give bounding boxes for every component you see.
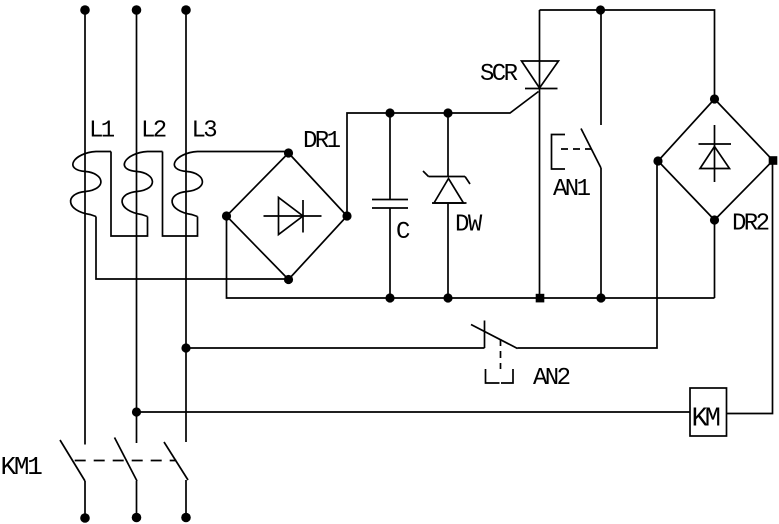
inductor L1 [71,118,115,217]
node KM1 contact3 bottom [181,513,191,523]
svg-text:KM: KM [692,405,720,435]
svg-text:AN2: AN2 [533,365,570,392]
zener diode DW [423,113,483,298]
contactor KM1 contact 3 [164,442,188,518]
bridge rectifier DR2 [658,99,773,238]
svg-text:AN1: AN1 [553,176,591,203]
KM1 linkage dashed [75,460,177,462]
node AN2 branch junction on L3 [181,343,190,352]
node SCR cathode on DC- bus (square) [536,294,545,303]
node C top [385,108,394,117]
svg-text:KM1: KM1 [1,452,43,482]
pushbutton AN1 [552,10,602,298]
wire SCR gate from DR1 right node [347,92,539,217]
wire DR2 bottom to DC- bus [714,220,716,298]
wire DR1 left node down and DC- bus [227,216,715,298]
node DR2 top [710,94,719,103]
pushbutton AN2 (NC) [471,321,570,393]
inductor L2 [122,118,166,217]
node C bottom [385,293,394,302]
wire AN2 to DR2 left node [518,161,658,348]
inductor L3 [172,118,216,217]
wire L1 phase vertical [84,10,86,445]
svg-text:L2: L2 [141,118,166,145]
node L2 top terminal [132,5,142,15]
label KM1 [1,452,43,482]
node AN1 bottom on DC- bus [596,293,605,302]
capacitor C [372,113,410,298]
wire AN2 branch from L3 [186,347,485,349]
node top bus junction [596,5,605,14]
node DR2 right (square) [769,156,778,165]
node DW bottom [443,293,452,302]
svg-text:SCR: SCR [480,61,518,88]
node L3 top terminal [181,5,191,15]
wire coil3 top to DR1 top node [212,152,289,154]
svg-text:DR2: DR2 [732,211,769,238]
node bottom bus junction on L2 [132,407,141,416]
node DR1 right [342,211,351,220]
bridge rectifier DR1 [227,128,348,280]
node DR2 bottom [710,215,719,224]
node L1 top terminal [80,5,90,15]
node DW top [443,108,452,117]
wire L1 coil bottom lead to DR1 bottom [96,217,289,280]
node KM1 contact1 bottom [80,513,90,523]
thyristor SCR [480,10,559,298]
svg-text:DW: DW [455,212,483,239]
wire L2 phase vertical [136,10,138,443]
node KM1 contact2 bottom [132,513,142,523]
wire bottom bus from L2 to KM coil [137,411,691,413]
node DR1 bottom [284,275,293,284]
relay coil KM [690,388,727,436]
wire U-jumper coil1 top to coil2 bottom [111,152,148,237]
contactor KM1 contact 1 [60,440,85,518]
svg-text:L3: L3 [192,118,217,145]
svg-text:DR1: DR1 [303,128,341,155]
svg-text:L1: L1 [89,118,115,145]
node DR1 top [284,148,293,157]
wire L3 phase vertical [185,10,187,442]
wire U-jumper coil2 top to coil3 bottom [163,152,198,237]
contactor KM1 contact 2 [115,438,138,518]
wire KM coil to DR2 right node [727,161,773,414]
node DR2 left [653,156,662,165]
node DR1 left [222,211,231,220]
wire top bus [540,10,715,99]
